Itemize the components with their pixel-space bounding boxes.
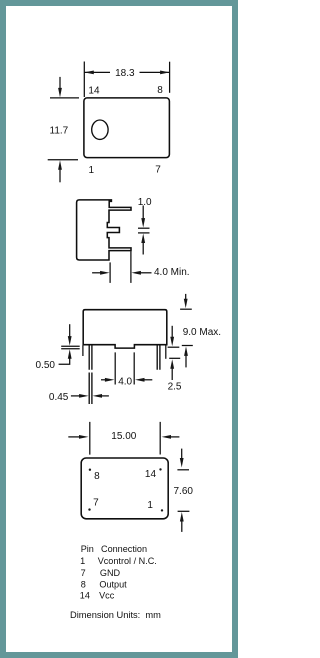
dim 9.0 Max arrow top (down) bbox=[185, 294, 187, 299]
dim 2.5 tick lower bbox=[169, 357, 180, 359]
dim 7.60 tick bottom bbox=[178, 510, 190, 512]
dim 4.0 Min arrow right (points left) bbox=[131, 271, 141, 275]
dim 15.00 arrow right (points left) bbox=[162, 435, 172, 439]
dim 18.3 extension line right bbox=[169, 62, 171, 93]
side view body with two leads and center standoff bbox=[77, 200, 131, 260]
svg-text:4.0 Min.: 4.0 Min. bbox=[154, 267, 190, 278]
dim 4.0 extension lines (standoff width) bbox=[115, 352, 134, 384]
svg-text:7: 7 bbox=[81, 568, 86, 578]
svg-text:7: 7 bbox=[155, 164, 161, 175]
pin pad dot 1 (bottom-right) bbox=[161, 509, 163, 511]
svg-text:Vcontrol / N.C.: Vcontrol / N.C. bbox=[98, 556, 157, 566]
dim 0.45 arrow right (points left) bbox=[93, 394, 103, 398]
dim 15.00 arrow left (points right) bbox=[68, 436, 79, 438]
lead pin 1 (left) bbox=[89, 345, 92, 369]
pin pad dot 7 (bottom-left) bbox=[88, 508, 90, 510]
dim 2.5 tick upper bbox=[168, 346, 180, 348]
dim 15.00 extension lines bbox=[90, 422, 160, 455]
svg-text:Vcc: Vcc bbox=[99, 591, 115, 601]
svg-text:8: 8 bbox=[157, 85, 163, 96]
dim 1.0 arrow bottom (up) bbox=[141, 234, 145, 244]
svg-text:18.3: 18.3 bbox=[115, 68, 135, 79]
dim 1.0 arrow top (down) bbox=[142, 206, 144, 219]
dim 11.7 arrow bottom (up) bbox=[59, 170, 61, 183]
dim 18.3 extension line left bbox=[83, 62, 85, 98]
dim 1.0 tick upper bbox=[138, 227, 150, 229]
dim 11.7 arrow top (down) bbox=[59, 77, 61, 89]
dim 9.0 Max arrow bottom (up) bbox=[184, 346, 188, 356]
svg-text:7.60: 7.60 bbox=[174, 486, 194, 497]
dim 0.50 arrow bottom (up) with leader bbox=[68, 349, 72, 359]
lead pin 4 (right) bbox=[157, 345, 160, 369]
svg-text:Dimension Units: mm: Dimension Units: mm bbox=[70, 610, 161, 620]
dim 2.5 arrow top (down) bbox=[171, 326, 173, 338]
svg-text:1: 1 bbox=[89, 165, 95, 176]
svg-text:GND: GND bbox=[100, 568, 121, 578]
dim 0.50 ticks bbox=[61, 346, 79, 349]
dim 4.0 Min extension line right bbox=[130, 251, 132, 283]
dim 2.5 arrow bottom (up) bbox=[170, 359, 174, 369]
svg-text:14: 14 bbox=[88, 85, 100, 96]
page background bbox=[0, 0, 238, 658]
pin pad dot 8 (top-left) bbox=[89, 469, 91, 471]
dim 11.7 extension line bottom bbox=[48, 159, 78, 161]
svg-text:8: 8 bbox=[94, 471, 100, 482]
dim 7.60 arrow top (down) bbox=[181, 449, 183, 459]
dim 1.0 tick lower bbox=[138, 232, 150, 234]
top view package body bbox=[84, 98, 169, 158]
dim 4.0 arrow right (points left) bbox=[135, 378, 145, 382]
bottom view package body bbox=[81, 458, 168, 519]
body right edge extension bbox=[165, 345, 167, 358]
dim 9.0 Max tick top bbox=[180, 308, 192, 310]
pin pad dot 14 (top-right) bbox=[159, 468, 161, 470]
svg-text:14: 14 bbox=[145, 469, 157, 480]
svg-text:1.0: 1.0 bbox=[138, 197, 152, 208]
svg-text:15.00: 15.00 bbox=[111, 431, 136, 442]
svg-text:9.0 Max.: 9.0 Max. bbox=[183, 327, 221, 338]
dim 4.0 Min arrow left (points right) bbox=[92, 272, 100, 274]
dim 18.3 arrowhead left bbox=[84, 71, 94, 75]
svg-text:Connection: Connection bbox=[101, 544, 147, 554]
dim 9.0 Max tick bottom bbox=[182, 345, 193, 347]
svg-text:7: 7 bbox=[93, 498, 99, 509]
svg-text:8: 8 bbox=[81, 579, 86, 589]
dim 18.3 arrowhead right bbox=[160, 71, 170, 75]
svg-text:1: 1 bbox=[147, 500, 153, 511]
body left edge extension bbox=[82, 345, 84, 356]
dim 7.60 tick top bbox=[177, 469, 189, 471]
dim 4.0 arrow left (points right) bbox=[101, 379, 105, 381]
teal page border frame bbox=[3, 3, 235, 655]
dim 18.3 dimension line bbox=[84, 71, 169, 73]
dim 0.50 arrow top (down) bbox=[69, 324, 71, 336]
svg-text:2.5: 2.5 bbox=[168, 381, 182, 392]
svg-text:1: 1 bbox=[80, 556, 85, 566]
dim 4.0 Min extension line left bbox=[109, 262, 111, 283]
dim 0.45 pin edge extensions bbox=[89, 373, 92, 405]
svg-text:Pin: Pin bbox=[81, 544, 94, 554]
dim 7.60 arrow bottom (up) bbox=[180, 512, 184, 522]
pin-1 index circle bbox=[92, 120, 108, 139]
svg-text:0.50: 0.50 bbox=[36, 360, 56, 371]
svg-text:0.45: 0.45 bbox=[49, 392, 69, 403]
svg-text:11.7: 11.7 bbox=[50, 126, 69, 137]
svg-text:Output: Output bbox=[99, 579, 127, 589]
dim 11.7 extension line top bbox=[50, 97, 79, 99]
dim 0.45 arrow left (points right) bbox=[71, 395, 80, 397]
svg-text:4.0: 4.0 bbox=[118, 376, 132, 387]
long side body with bottom standoff bump bbox=[83, 310, 167, 348]
svg-text:14: 14 bbox=[80, 591, 90, 601]
